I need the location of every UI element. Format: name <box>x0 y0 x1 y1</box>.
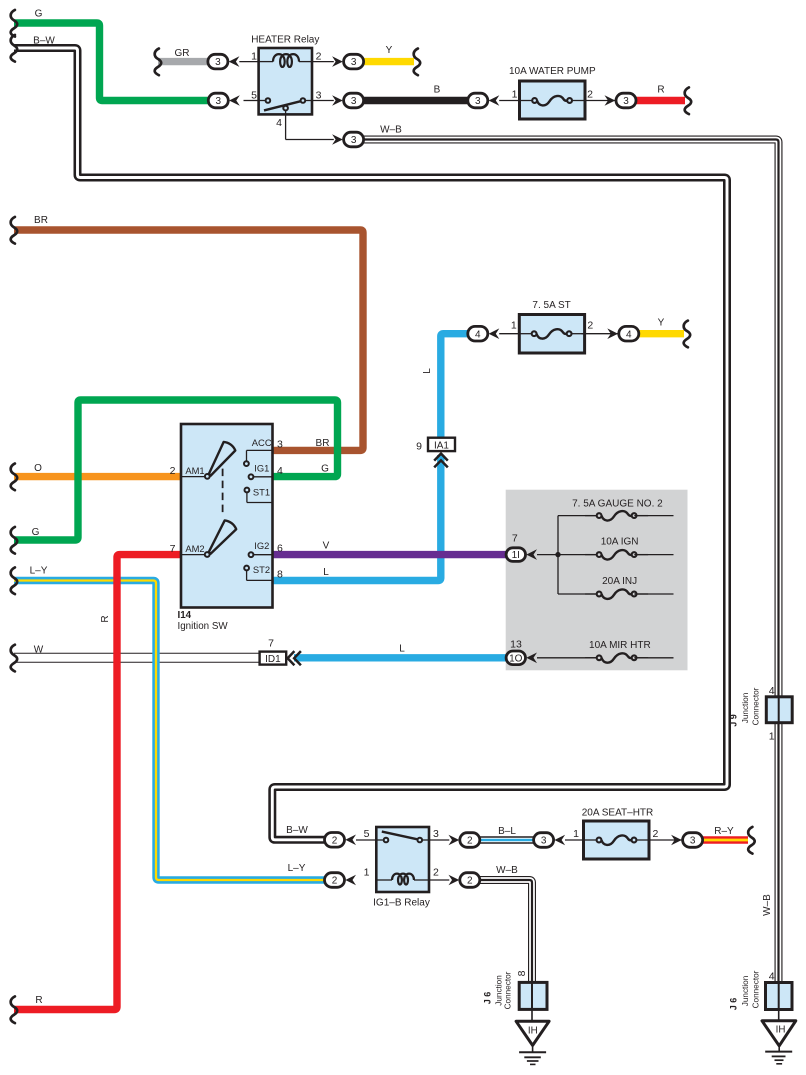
svg-text:O: O <box>34 463 42 474</box>
svg-text:8: 8 <box>277 569 283 581</box>
connector 1O with pin 13 <box>506 639 537 665</box>
connector 1I with pin 7 <box>506 533 537 562</box>
label W <box>34 644 44 655</box>
svg-text:IH: IH <box>528 1026 538 1037</box>
svg-text:1: 1 <box>573 828 579 840</box>
connector 3 on G wire <box>208 93 240 108</box>
junction connector J6 right with pin 4 <box>766 970 793 1009</box>
svg-text:G: G <box>32 527 40 538</box>
svg-text:6: 6 <box>277 542 283 554</box>
svg-text:HEATER Relay: HEATER Relay <box>251 35 319 46</box>
svg-text:GR: GR <box>175 48 190 59</box>
wire B-L between IG1-B relay pin 3 connector and SEAT-HTR fuse connector <box>479 836 535 844</box>
fuse 7.5A ST <box>511 300 594 353</box>
svg-text:ST2: ST2 <box>253 564 270 575</box>
svg-text:1: 1 <box>364 867 370 879</box>
break symbol W <box>11 645 18 672</box>
connector 3 on R-Y wire <box>671 833 703 848</box>
svg-text:4: 4 <box>276 117 282 129</box>
svg-text:B: B <box>434 85 441 96</box>
wire J6 left to ground triangle <box>531 1009 533 1021</box>
label J 6 left <box>483 992 493 1005</box>
wire O from left break to ignition switch AM1 pin 2 <box>14 473 181 480</box>
junction connector J6 left with pin 8 <box>516 970 547 1009</box>
svg-text:2: 2 <box>467 836 473 847</box>
switch I14 Ignition SW <box>170 424 283 608</box>
thin line IG1-B pin 3 to arrow <box>429 839 449 841</box>
wire L from connector IA1 chevrons down to ignition switch ST2 pin 8 <box>273 455 441 581</box>
svg-text:2: 2 <box>316 51 322 63</box>
chevron arrows below IA1 <box>434 454 448 468</box>
label J 6 right <box>729 998 739 1011</box>
svg-text:B–L: B–L <box>498 826 516 837</box>
svg-text:AM2: AM2 <box>185 543 204 554</box>
svg-text:1O: 1O <box>509 653 523 664</box>
connector 2 on W-B wire at IG1-B <box>449 873 480 888</box>
label R-Y <box>714 826 734 837</box>
break symbol Y top <box>414 49 421 76</box>
fuse 20A SEAT-HTR <box>573 808 658 859</box>
svg-text:3: 3 <box>316 89 322 101</box>
svg-text:2: 2 <box>587 320 593 332</box>
wire L from 7.5A ST fuse connector down to connector IA1 <box>441 334 468 438</box>
svg-text:Junction: Junction <box>495 975 504 1006</box>
relay IG1-B Relay <box>356 827 439 892</box>
junction connector J9 with pins 4 and 1 <box>766 685 792 742</box>
svg-text:4: 4 <box>626 329 632 340</box>
svg-text:B–W: B–W <box>286 825 308 836</box>
svg-text:IA1: IA1 <box>434 440 449 451</box>
svg-text:3: 3 <box>690 836 696 847</box>
svg-text:AM1: AM1 <box>185 465 204 476</box>
svg-text:IH: IH <box>776 1025 786 1036</box>
svg-text:3: 3 <box>351 96 357 107</box>
wire J6 right to ground triangle <box>778 1010 780 1021</box>
connector 3 on W-B wire <box>332 132 364 147</box>
wire Y from HEATER relay pin 2 connector to break <box>364 58 415 65</box>
svg-text:J 6: J 6 <box>729 998 739 1011</box>
label W-B rotated on right vertical run <box>762 894 773 916</box>
svg-text:Ignition SW: Ignition SW <box>178 621 229 632</box>
connector 3 on Y wire <box>332 54 364 69</box>
label Junction Connector J6 left <box>495 971 513 1009</box>
connector 3 on GR wire <box>208 54 259 69</box>
svg-text:3: 3 <box>433 828 439 840</box>
wire GR from break to HEATER relay pin 1 connector <box>158 58 209 65</box>
svg-text:Junction: Junction <box>741 975 750 1006</box>
thin line WATER PUMP pin 2 to arrow <box>584 100 615 102</box>
wire V from ignition switch IG2 pin 6 to connector 1I in fuse block <box>273 551 509 558</box>
wire B between HEATER relay pin 3 connector and WATER PUMP fuse connector <box>364 97 469 104</box>
svg-text:R: R <box>35 995 42 1006</box>
svg-text:9: 9 <box>416 441 422 453</box>
label Ignition SW <box>178 621 229 632</box>
fuse 20A INJ <box>558 576 674 599</box>
junction dot <box>555 552 560 557</box>
svg-text:2: 2 <box>170 465 176 477</box>
break symbol O <box>11 464 18 491</box>
connector 4 on L wire at ST fuse <box>468 326 520 341</box>
svg-text:G: G <box>35 8 43 19</box>
svg-text:L–Y: L–Y <box>30 565 48 576</box>
svg-text:2: 2 <box>467 876 473 887</box>
svg-text:13: 13 <box>510 639 522 651</box>
break symbol G second <box>11 527 18 554</box>
svg-text:J 6: J 6 <box>483 992 493 1005</box>
svg-text:2: 2 <box>332 835 338 846</box>
svg-text:Connector: Connector <box>504 971 513 1009</box>
svg-text:3: 3 <box>475 96 481 107</box>
break symbol GR <box>155 49 162 76</box>
wire G from left break to ignition switch IG1 pin 4 <box>14 400 338 540</box>
svg-text:3: 3 <box>351 57 357 68</box>
label IG1-B Relay <box>373 898 430 909</box>
svg-text:2: 2 <box>332 876 338 887</box>
relay HEATER Relay <box>244 35 322 130</box>
label I14 <box>178 610 192 621</box>
fuse 10A IGN <box>537 537 674 560</box>
wire G from top-left break to HEATER relay pin 5 connector <box>14 23 208 101</box>
svg-text:IG1: IG1 <box>254 462 269 473</box>
svg-text:2: 2 <box>653 828 659 840</box>
svg-text:W–B: W–B <box>496 865 518 876</box>
connector 3 on B wire at fuse side <box>468 93 521 108</box>
label W-B at HEATER relay <box>380 125 402 136</box>
svg-text:R: R <box>657 85 664 96</box>
label BR at pin 3 <box>316 438 330 449</box>
svg-text:ACC: ACC <box>252 437 272 448</box>
ground symbol right <box>765 1046 792 1064</box>
connector 2 on B-W wire <box>325 833 357 848</box>
svg-text:3: 3 <box>623 96 629 107</box>
svg-text:W–B: W–B <box>380 125 402 136</box>
label R top-right <box>657 85 664 96</box>
break symbol R bottom-left <box>11 996 18 1023</box>
svg-text:10A IGN: 10A IGN <box>601 537 639 548</box>
label G second <box>32 527 40 538</box>
svg-text:3: 3 <box>351 135 357 146</box>
svg-text:IG1–B Relay: IG1–B Relay <box>373 898 430 909</box>
connector 2 on L-Y wire <box>325 873 357 888</box>
ground symbol left <box>519 1045 546 1064</box>
ground triangle IH left <box>516 1021 549 1045</box>
svg-text:Connector: Connector <box>751 687 760 725</box>
svg-text:1: 1 <box>512 89 518 101</box>
svg-text:3: 3 <box>277 438 283 450</box>
thin line HEATER relay pin 3 to arrow <box>312 100 334 102</box>
break symbol Y at ST fuse <box>684 321 691 348</box>
break symbol B-W top-left <box>11 35 18 62</box>
svg-text:3: 3 <box>215 57 221 68</box>
label G top-left <box>35 8 43 19</box>
svg-text:10A WATER PUMP: 10A WATER PUMP <box>509 66 596 77</box>
break symbol R-Y <box>748 827 755 854</box>
svg-text:4: 4 <box>769 970 775 982</box>
thin line IG1-B pin 2 to arrow <box>429 879 449 881</box>
svg-text:BR: BR <box>316 438 330 449</box>
svg-text:W–B: W–B <box>762 894 773 916</box>
fuse 10A MIR HTR <box>537 640 674 663</box>
svg-text:R–Y: R–Y <box>714 826 734 837</box>
svg-text:3: 3 <box>541 836 547 847</box>
svg-text:2: 2 <box>587 89 593 101</box>
label Junction Connector J9 <box>741 687 760 725</box>
connector 3 on B-L wire right <box>534 833 585 848</box>
wire R-Y from SEAT-HTR fuse pin 2 connector to break <box>701 836 748 843</box>
svg-text:4: 4 <box>277 465 283 477</box>
svg-text:ID1: ID1 <box>265 654 281 665</box>
svg-text:5: 5 <box>251 89 257 101</box>
label J 9 <box>729 714 739 727</box>
connector 4 on Y wire at ST fuse <box>607 326 639 341</box>
svg-text:ST1: ST1 <box>253 486 270 497</box>
label L rotated on vertical run <box>422 368 433 374</box>
svg-text:1I: 1I <box>512 550 520 561</box>
svg-text:Connector: Connector <box>751 970 760 1008</box>
svg-text:G: G <box>321 463 329 474</box>
svg-text:4: 4 <box>475 329 481 340</box>
svg-text:Y: Y <box>386 45 393 56</box>
svg-text:7: 7 <box>512 533 518 545</box>
svg-text:L–Y: L–Y <box>288 863 306 874</box>
break symbol L-Y <box>11 567 18 594</box>
label Junction Connector J6 right <box>741 970 760 1008</box>
svg-text:1: 1 <box>511 320 517 332</box>
wire B-W from top-left break, big loop to IG1-B relay pin 5 connector <box>14 48 727 840</box>
wire R from WATER PUMP fuse pin 2 connector to break <box>636 97 685 104</box>
connector IA1 with pin 9 <box>416 438 455 453</box>
svg-text:R: R <box>100 615 111 622</box>
svg-text:BR: BR <box>34 215 48 226</box>
wire pin4 of HEATER relay to its connector <box>286 110 334 139</box>
svg-text:I14: I14 <box>178 610 192 621</box>
svg-text:10A MIR HTR: 10A MIR HTR <box>589 640 651 651</box>
connector 3 heater pin3 to B wire <box>332 93 364 108</box>
branch line in fuse block <box>557 516 559 594</box>
wire W-B from IG1-B relay pin 2 connector down to junction connector J6 <box>480 880 533 1008</box>
label B-W at IG1-B relay <box>286 825 308 836</box>
svg-text:1: 1 <box>251 51 257 63</box>
svg-text:V: V <box>323 541 330 552</box>
svg-text:4: 4 <box>769 685 775 697</box>
fuse 10A WATER PUMP <box>509 66 596 119</box>
fuse block (gray box) <box>506 490 688 671</box>
label L at ID1 <box>399 644 405 655</box>
svg-text:Y: Y <box>658 318 665 329</box>
svg-text:7. 5A GAUGE NO. 2: 7. 5A GAUGE NO. 2 <box>572 499 663 510</box>
label V <box>323 541 330 552</box>
svg-text:L: L <box>422 368 433 374</box>
label L at ST2 <box>323 567 329 578</box>
label R rotated on vertical run <box>100 615 111 622</box>
connector ID1 with pin 7 <box>260 638 287 666</box>
svg-text:20A INJ: 20A INJ <box>602 576 637 587</box>
svg-text:20A SEAT–HTR: 20A SEAT–HTR <box>582 808 654 819</box>
svg-text:7: 7 <box>268 638 274 650</box>
wire W from left break to connector ID1 <box>14 653 261 663</box>
connector 2 on B-L wire left <box>449 833 480 848</box>
wire BR from left break to ignition switch ACC pin 3 <box>14 230 363 450</box>
svg-text:L: L <box>399 644 405 655</box>
wire Y from 7.5A ST fuse pin 2 connector to break <box>638 330 685 337</box>
svg-text:3: 3 <box>216 96 222 107</box>
label L-Y at IG1-B relay <box>288 863 306 874</box>
label W-B at IG1-B relay <box>496 865 518 876</box>
wire L-Y from left break to IG1-B relay pin 1 connector <box>14 581 326 881</box>
thin line SEAT-HTR pin 2 to arrow <box>648 839 683 841</box>
svg-text:8: 8 <box>516 970 528 976</box>
wire W-B from HEATER relay pin 4 connector down right side through J9 to J6 <box>364 140 779 1009</box>
break symbol G top-left <box>11 10 18 37</box>
svg-text:W: W <box>34 644 44 655</box>
label O <box>34 463 42 474</box>
svg-text:1: 1 <box>769 730 775 742</box>
svg-text:5: 5 <box>364 828 370 840</box>
svg-text:L: L <box>323 567 329 578</box>
label B-L <box>498 826 516 837</box>
svg-text:7: 7 <box>170 543 176 555</box>
label R bottom-left <box>35 995 42 1006</box>
svg-text:7. 5A ST: 7. 5A ST <box>532 300 570 311</box>
label B <box>434 85 441 96</box>
label B-W top-left <box>33 36 55 47</box>
chevron arrows right of ID1 <box>288 651 301 665</box>
svg-text:B–W: B–W <box>33 36 55 47</box>
svg-text:J 9: J 9 <box>729 714 739 727</box>
label Y top <box>386 45 393 56</box>
svg-text:2: 2 <box>433 867 439 879</box>
wire R from ignition switch AM2 pin 7 to bottom-left break <box>14 555 181 1010</box>
wire L from connector ID1 to connector 1O in fuse block <box>294 654 508 661</box>
thin line HEATER relay pin 2 to arrow <box>312 61 334 63</box>
label L-Y left <box>30 565 48 576</box>
svg-text:Junction: Junction <box>741 692 750 723</box>
connector 3 on R wire <box>605 93 637 108</box>
label BR left <box>34 215 48 226</box>
break symbol R top-right <box>685 87 692 114</box>
label G at pin 4 <box>321 463 329 474</box>
ground triangle IH right <box>762 1021 796 1046</box>
svg-text:IG2: IG2 <box>254 540 269 551</box>
break symbol BR <box>11 217 18 244</box>
label GR <box>175 48 190 59</box>
fuse 7.5A GAUGE NO. 2 <box>558 499 674 521</box>
label Y at ST fuse <box>658 318 665 329</box>
thin line ST fuse pin 2 to arrow <box>582 333 619 335</box>
